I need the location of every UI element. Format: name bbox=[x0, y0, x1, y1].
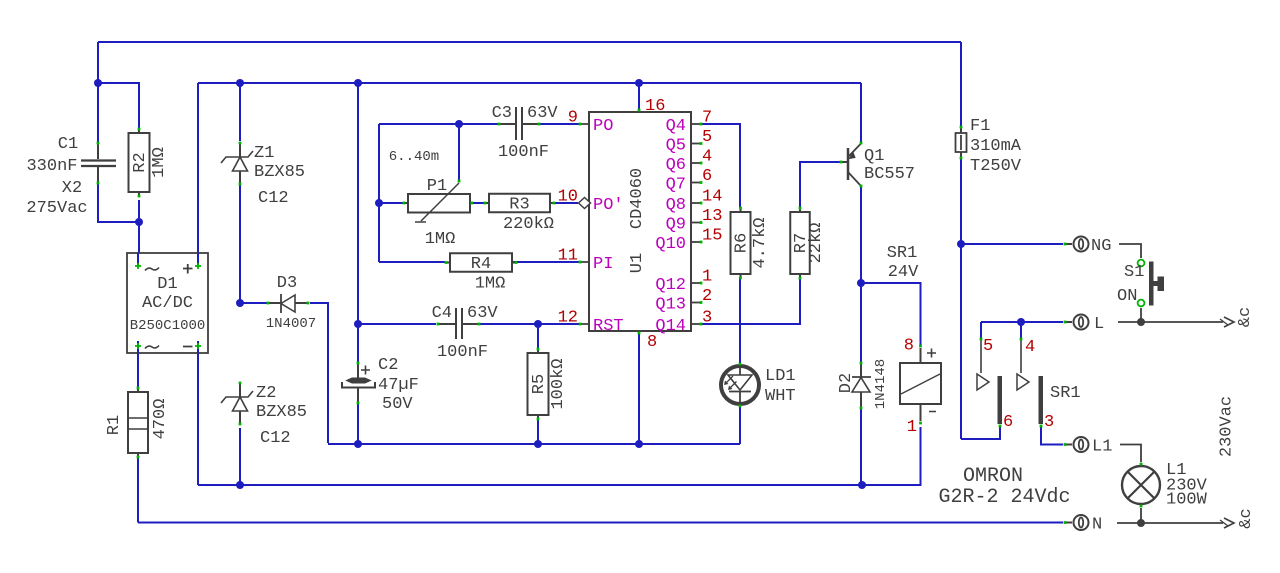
svg-text:L: L bbox=[1094, 315, 1104, 334]
svg-text:R6: R6 bbox=[733, 233, 752, 253]
svg-text:8: 8 bbox=[647, 333, 657, 352]
svg-text:1: 1 bbox=[702, 268, 712, 287]
junction P1 left bbox=[375, 199, 383, 207]
svg-text:G2R-2 24Vdc: G2R-2 24Vdc bbox=[938, 486, 1070, 509]
wire P1 loop left bbox=[378, 124, 380, 262]
svg-text:ON: ON bbox=[1117, 287, 1137, 306]
svg-text:S1: S1 bbox=[1124, 263, 1144, 282]
svg-text:R2: R2 bbox=[131, 152, 150, 172]
wire NG branch bbox=[961, 243, 1063, 245]
svg-text:D1: D1 bbox=[157, 275, 177, 294]
switch S1 bbox=[1117, 244, 1164, 322]
svg-text:310mA: 310mA bbox=[970, 137, 1022, 156]
svg-text:7: 7 bbox=[702, 109, 712, 128]
terminal N bbox=[1064, 515, 1103, 535]
junction L node bbox=[1017, 318, 1025, 326]
svg-text:P1: P1 bbox=[427, 177, 447, 196]
svg-text:T250V: T250V bbox=[970, 157, 1022, 176]
arrow N out bbox=[1220, 518, 1234, 528]
svg-text:&c: &c bbox=[1236, 307, 1255, 327]
wire D1 AC2 to R1 bbox=[137, 347, 139, 388]
junction pin8 ground bbox=[635, 440, 643, 448]
svg-text:6..40m: 6..40m bbox=[389, 149, 439, 165]
junction C2 ground bbox=[354, 440, 362, 448]
wire IC pin8 drop bbox=[638, 333, 640, 444]
wire R3 to PO pin bbox=[552, 202, 578, 204]
relay type label bbox=[938, 465, 1070, 509]
junction P1 top bbox=[455, 120, 463, 128]
resistor R5 bbox=[528, 348, 569, 421]
svg-text:Q8: Q8 bbox=[666, 196, 686, 215]
svg-text:C12: C12 bbox=[258, 189, 289, 208]
wire R2 top branch bbox=[98, 83, 139, 128]
relay coil SR1 bbox=[887, 244, 941, 437]
wire relay coil minus bbox=[862, 427, 921, 485]
capacitor C1 bbox=[26, 135, 116, 218]
wire LED bottom bbox=[739, 406, 741, 444]
fuse F1 bbox=[956, 117, 1022, 176]
wire RST pin bbox=[538, 323, 579, 325]
potentiometer P1 bbox=[389, 149, 474, 249]
svg-text:47µF: 47µF bbox=[378, 376, 419, 395]
wire P1 wiper drop bbox=[458, 124, 460, 180]
svg-text:100nF: 100nF bbox=[498, 143, 549, 162]
wire P1 loop top bbox=[379, 123, 498, 125]
wire D2 bottom bbox=[860, 408, 862, 485]
svg-text:PI: PI bbox=[593, 255, 613, 274]
svg-text:LD1: LD1 bbox=[765, 367, 796, 386]
wire C4 left bbox=[358, 323, 436, 325]
wire R5 bottom bbox=[537, 416, 539, 444]
wire R4 left pin bbox=[379, 261, 445, 263]
svg-text:100nF: 100nF bbox=[437, 343, 488, 362]
terminal NG bbox=[1064, 237, 1112, 257]
wire C4 to RST node bbox=[480, 323, 538, 325]
op-amp U1 CD4060 body bbox=[579, 109, 703, 335]
capacitor C3 bbox=[492, 104, 559, 162]
svg-text:3: 3 bbox=[702, 309, 712, 328]
wire live column down bbox=[960, 244, 962, 439]
svg-text:Q12: Q12 bbox=[655, 276, 686, 295]
svg-text:OMRON: OMRON bbox=[963, 465, 1023, 488]
svg-text:11: 11 bbox=[558, 247, 578, 266]
svg-text:BZX85: BZX85 bbox=[256, 403, 307, 422]
wire D3 cathode stub bbox=[240, 302, 267, 304]
junction RST node bbox=[534, 320, 542, 328]
resistor R7 bbox=[790, 207, 826, 280]
svg-text:Q1: Q1 bbox=[864, 147, 884, 166]
wire contact3 out bbox=[1041, 427, 1063, 445]
wire Q4 output bbox=[701, 124, 740, 208]
svg-text:WHT: WHT bbox=[765, 387, 796, 406]
svg-text:10: 10 bbox=[558, 188, 578, 207]
svg-text:9: 9 bbox=[568, 109, 578, 128]
wire D1 plus pin up bbox=[197, 83, 199, 265]
diode D2 bbox=[837, 359, 889, 410]
svg-text:R4: R4 bbox=[471, 255, 491, 274]
wire Z1 top bbox=[239, 83, 241, 141]
LED LD1 bbox=[721, 363, 796, 408]
wire neutral rail bbox=[138, 522, 1063, 524]
wire R4 to PI pin bbox=[513, 261, 580, 263]
svg-text:BC557: BC557 bbox=[864, 165, 915, 184]
svg-text:24V: 24V bbox=[888, 263, 919, 282]
svg-text:63V: 63V bbox=[527, 104, 558, 123]
wire IC pin16 drop bbox=[638, 83, 640, 111]
svg-text:AC/DC: AC/DC bbox=[142, 294, 193, 313]
bridge rectifier D1 bbox=[127, 253, 208, 353]
U1 pin names bbox=[593, 117, 686, 336]
svg-text:N: N bbox=[1092, 516, 1102, 535]
svg-text:15: 15 bbox=[702, 227, 722, 246]
svg-text:Q7: Q7 bbox=[666, 176, 686, 195]
wire positive rail bbox=[198, 82, 861, 84]
svg-text:6: 6 bbox=[702, 167, 712, 186]
svg-text:1N4148: 1N4148 bbox=[873, 359, 889, 409]
svg-text:1MΩ: 1MΩ bbox=[150, 147, 169, 178]
terminal L1 bbox=[1064, 437, 1113, 457]
U1 pin numbers bbox=[558, 97, 723, 352]
resistor R3 bbox=[484, 194, 556, 234]
wire L1 to lamp bbox=[1120, 445, 1141, 463]
wire C1 top bbox=[97, 83, 99, 142]
wire mid ground rail bbox=[328, 443, 740, 445]
wire D3 anode down bbox=[310, 303, 328, 443]
svg-text:470Ω: 470Ω bbox=[151, 399, 170, 440]
wire D2 top bbox=[860, 283, 862, 362]
wire R2 bottom bbox=[138, 200, 140, 222]
junction collector node bbox=[857, 279, 865, 287]
svg-text:220kΩ: 220kΩ bbox=[503, 215, 554, 234]
wire Q1 emitter up bbox=[860, 83, 862, 142]
junction supply rail bbox=[354, 79, 362, 87]
svg-text:B250C1000: B250C1000 bbox=[130, 318, 206, 334]
zener diode Z2 bbox=[221, 382, 307, 448]
wire fuse top bbox=[960, 42, 962, 126]
junction lamp on N bbox=[1137, 519, 1145, 527]
svg-text:Q13: Q13 bbox=[655, 296, 686, 315]
svg-text:C3: C3 bbox=[492, 104, 512, 123]
svg-text:22kΩ: 22kΩ bbox=[807, 223, 826, 264]
svg-text:U1: U1 bbox=[628, 253, 647, 273]
junction C1-R2 bottom bbox=[135, 218, 143, 226]
svg-text:1: 1 bbox=[907, 418, 917, 437]
lamp L1 bbox=[1122, 461, 1208, 510]
svg-text:PO': PO' bbox=[593, 196, 624, 215]
svg-text:Q10: Q10 bbox=[655, 235, 686, 254]
resistor R2 bbox=[129, 128, 170, 198]
wire contact5 top bbox=[980, 322, 982, 338]
svg-text:2: 2 bbox=[702, 287, 712, 306]
junction R5 ground bbox=[534, 440, 542, 448]
wire zero volt rail bbox=[198, 484, 862, 486]
svg-text:L1: L1 bbox=[1092, 438, 1112, 457]
svg-text:12: 12 bbox=[558, 309, 578, 328]
resistor R1 bbox=[105, 387, 170, 459]
svg-text:Q4: Q4 bbox=[666, 117, 686, 136]
junction D2 ground bbox=[858, 481, 866, 489]
svg-text:13: 13 bbox=[702, 207, 722, 226]
wire Q1 collector down bbox=[860, 187, 862, 283]
junction Z1 rail bbox=[236, 79, 244, 87]
svg-text:100W: 100W bbox=[1166, 491, 1208, 510]
svg-text:4: 4 bbox=[1025, 338, 1035, 357]
svg-text:63V: 63V bbox=[467, 304, 498, 323]
relay contact 5-6 bbox=[977, 337, 1013, 432]
svg-text:C4: C4 bbox=[432, 304, 452, 323]
wire L to S1 net bbox=[1118, 321, 1223, 323]
svg-text:SR1: SR1 bbox=[887, 244, 918, 263]
transistor Q1 bbox=[840, 142, 915, 188]
junction fuse NG bbox=[957, 240, 965, 248]
resistor R4 bbox=[445, 253, 518, 293]
wire lamp to N net bbox=[1140, 508, 1142, 523]
svg-text:5: 5 bbox=[983, 337, 993, 356]
svg-text:16: 16 bbox=[645, 97, 665, 116]
capacitor C4 bbox=[432, 304, 499, 362]
wire R5 top bbox=[537, 324, 539, 349]
svg-text:NG: NG bbox=[1091, 237, 1111, 256]
svg-text:BZX85: BZX85 bbox=[254, 163, 305, 182]
svg-text:Z2: Z2 bbox=[256, 384, 276, 403]
wire Z1 bottom to D3 node bbox=[239, 184, 241, 303]
zener diode Z1 bbox=[221, 142, 305, 208]
svg-text:C1: C1 bbox=[58, 135, 78, 154]
svg-text:Q6: Q6 bbox=[666, 156, 686, 175]
junction C4 supply bbox=[354, 320, 362, 328]
svg-text:Q5: Q5 bbox=[666, 137, 686, 156]
svg-text:CD4060: CD4060 bbox=[628, 168, 647, 229]
svg-text:C2: C2 bbox=[378, 356, 398, 375]
svg-text:D2: D2 bbox=[837, 373, 856, 393]
svg-text:F1: F1 bbox=[970, 117, 990, 136]
diode D3 bbox=[266, 274, 316, 332]
svg-text:8: 8 bbox=[904, 337, 914, 356]
svg-text:3: 3 bbox=[1044, 413, 1054, 432]
svg-text:R3: R3 bbox=[509, 196, 529, 215]
wire Z2 bottom bbox=[239, 428, 241, 485]
wire left drop to C1 node bbox=[97, 42, 99, 83]
wire to contact6 bbox=[961, 427, 1000, 439]
svg-text:RST: RST bbox=[593, 317, 624, 336]
svg-text:X2: X2 bbox=[62, 179, 82, 198]
wire Q14 to R7 bbox=[701, 278, 800, 324]
wire C1 bottom to bridge input bbox=[98, 184, 137, 222]
svg-text:100kΩ: 100kΩ bbox=[549, 358, 568, 409]
svg-text:5: 5 bbox=[702, 128, 712, 147]
wire L branch bbox=[1021, 321, 1063, 323]
junction S1 on L bbox=[1137, 318, 1145, 326]
wire contact4 top bbox=[1020, 322, 1022, 338]
wire P1 to R3 bbox=[471, 202, 488, 204]
resistor R6 bbox=[731, 207, 771, 280]
svg-text:230Vac: 230Vac bbox=[1218, 396, 1237, 457]
svg-text:Z1: Z1 bbox=[254, 144, 274, 163]
wire collector to coil plus bbox=[861, 283, 921, 345]
wire C2 bottom bbox=[357, 404, 359, 444]
wire N out net bbox=[1117, 522, 1223, 524]
svg-text:&c: &c bbox=[1237, 508, 1256, 528]
svg-text:1MΩ: 1MΩ bbox=[475, 275, 506, 294]
svg-text:C12: C12 bbox=[260, 429, 291, 448]
wire R7 to Q1 base bbox=[800, 162, 840, 208]
wire R6 to LED bbox=[739, 277, 741, 364]
svg-text:PO: PO bbox=[593, 117, 613, 136]
svg-text:330nF: 330nF bbox=[26, 157, 77, 176]
svg-text:1N4007: 1N4007 bbox=[266, 316, 316, 332]
wire node to D1 AC pin bbox=[138, 222, 140, 265]
svg-text:D3: D3 bbox=[277, 274, 297, 293]
svg-text:Q9: Q9 bbox=[666, 216, 686, 235]
junction C1 top node bbox=[94, 79, 102, 87]
svg-text:Q14: Q14 bbox=[655, 317, 686, 336]
junction D3 node bbox=[236, 299, 244, 307]
arrow L out bbox=[1220, 317, 1234, 327]
wire P1 left pin bbox=[379, 202, 404, 204]
svg-text:4.7kΩ: 4.7kΩ bbox=[751, 217, 770, 268]
svg-text:14: 14 bbox=[702, 188, 722, 207]
junction pin16 rail bbox=[635, 79, 643, 87]
svg-text:R1: R1 bbox=[105, 415, 124, 435]
wire R1 bottom corner bbox=[137, 457, 139, 523]
wire D1 minus down bbox=[197, 347, 199, 485]
svg-text:1MΩ: 1MΩ bbox=[425, 230, 456, 249]
relay contact 4-3 bbox=[1017, 338, 1081, 432]
svg-text:6: 6 bbox=[1003, 413, 1013, 432]
wire C3 to PO pin bbox=[540, 123, 580, 125]
wire supply column bbox=[357, 83, 359, 362]
svg-text:4: 4 bbox=[702, 148, 712, 167]
svg-text:SR1: SR1 bbox=[1050, 384, 1081, 403]
wire fuse to NG node bbox=[960, 159, 962, 244]
terminal L bbox=[1064, 315, 1105, 335]
wire contact link bbox=[981, 321, 1021, 323]
wire mains top rail bbox=[98, 41, 961, 43]
svg-text:50V: 50V bbox=[382, 395, 413, 414]
junction Z2 ground bbox=[236, 481, 244, 489]
capacitor C2 bbox=[342, 356, 419, 414]
svg-text:R5: R5 bbox=[530, 374, 549, 394]
svg-text:275Vac: 275Vac bbox=[26, 199, 87, 218]
